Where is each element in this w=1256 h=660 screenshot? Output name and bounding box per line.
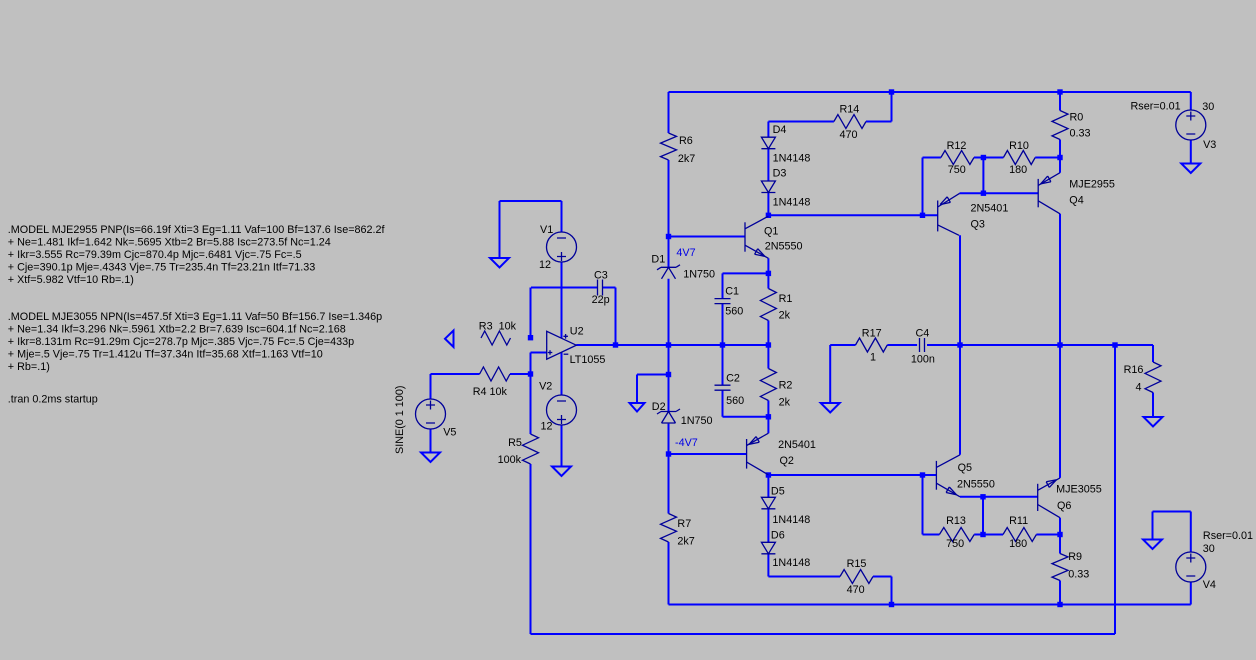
svg-text:R17: R17 [862, 328, 882, 340]
svg-text:+ Xtf=5.982 Vtf=10 Rb=.1): + Xtf=5.982 Vtf=10 Rb=.1) [8, 274, 134, 286]
svg-text:.tran 0.2ms startup: .tran 0.2ms startup [8, 394, 98, 406]
svg-text:Rser=0.01: Rser=0.01 [1203, 530, 1253, 542]
svg-text:V2: V2 [539, 381, 552, 393]
svg-text:1N4148: 1N4148 [772, 514, 810, 526]
svg-text:0.33: 0.33 [1070, 128, 1091, 140]
svg-text:R9: R9 [1068, 551, 1082, 563]
svg-text:R11: R11 [1009, 515, 1028, 527]
svg-text:180: 180 [1009, 538, 1027, 550]
svg-text:2k: 2k [779, 397, 791, 409]
svg-text:R3 10k: R3 10k [479, 321, 517, 333]
svg-text:4: 4 [1136, 382, 1142, 394]
svg-text:470: 470 [847, 584, 865, 596]
svg-text:C2: C2 [726, 373, 740, 385]
svg-text:2k: 2k [779, 310, 791, 322]
svg-text:C4: C4 [916, 328, 930, 340]
svg-text:100n: 100n [911, 354, 935, 366]
svg-text:R6: R6 [679, 135, 693, 147]
svg-text:R12: R12 [947, 140, 967, 152]
svg-text:-4V7: -4V7 [675, 437, 698, 449]
svg-text:180: 180 [1009, 164, 1027, 176]
svg-text:R0: R0 [1070, 112, 1084, 124]
svg-text:30: 30 [1203, 543, 1215, 555]
svg-text:C3: C3 [594, 270, 608, 282]
svg-text:560: 560 [725, 306, 743, 318]
svg-text:+ Rb=.1): + Rb=.1) [8, 361, 50, 373]
svg-text:V1: V1 [540, 224, 553, 236]
svg-text:1N4148: 1N4148 [773, 153, 811, 165]
svg-text:R10: R10 [1009, 140, 1029, 152]
svg-text:D6: D6 [771, 530, 785, 542]
svg-text:1N4148: 1N4148 [772, 557, 810, 569]
svg-text:2N5401: 2N5401 [778, 439, 816, 451]
svg-text:R16: R16 [1124, 364, 1144, 376]
svg-text:R1: R1 [779, 293, 793, 305]
svg-text:22p: 22p [592, 294, 610, 306]
svg-text:R14: R14 [840, 104, 860, 116]
svg-text:750: 750 [948, 164, 966, 176]
svg-text:4V7: 4V7 [676, 247, 695, 259]
svg-text:2k7: 2k7 [678, 153, 695, 165]
svg-text:D3: D3 [773, 168, 787, 180]
svg-text:+ Ikr=8.131m Rc=91.29m Cjc=278: + Ikr=8.131m Rc=91.29m Cjc=278.7p Mjc=.3… [8, 336, 354, 348]
svg-text:100k: 100k [498, 454, 522, 466]
svg-text:R4 10k: R4 10k [473, 386, 508, 398]
svg-text:Q5: Q5 [958, 462, 972, 474]
svg-text:2N5550: 2N5550 [957, 479, 995, 491]
svg-text:D1: D1 [651, 254, 665, 266]
svg-text:Q2: Q2 [780, 455, 794, 467]
svg-text:MJE2955: MJE2955 [1069, 179, 1115, 191]
svg-text:30: 30 [1202, 101, 1214, 113]
svg-text:D2: D2 [652, 401, 666, 413]
svg-text:.MODEL MJE3055 NPN(Is=457.5f X: .MODEL MJE3055 NPN(Is=457.5f Xti=3 Eg=1.… [8, 311, 382, 323]
svg-text:R5: R5 [508, 437, 522, 449]
svg-text:R2: R2 [779, 380, 793, 392]
svg-text:1: 1 [870, 352, 876, 364]
svg-text:V5: V5 [443, 427, 456, 439]
svg-text:2N5401: 2N5401 [971, 203, 1009, 215]
svg-text:V4: V4 [1203, 579, 1216, 591]
svg-text:1N750: 1N750 [681, 415, 713, 427]
svg-text:U2: U2 [570, 326, 584, 338]
svg-text:2k7: 2k7 [677, 536, 694, 548]
svg-text:0.33: 0.33 [1068, 569, 1089, 581]
svg-text:Q6: Q6 [1057, 500, 1071, 512]
svg-text:Rser=0.01: Rser=0.01 [1131, 101, 1181, 113]
svg-text:D4: D4 [773, 124, 787, 136]
svg-text:12: 12 [539, 259, 551, 271]
svg-text:R15: R15 [847, 558, 867, 570]
svg-text:Q3: Q3 [971, 219, 985, 231]
svg-text:R7: R7 [677, 518, 691, 530]
svg-text:560: 560 [726, 395, 744, 407]
svg-text:Q1: Q1 [764, 226, 778, 238]
svg-text:D5: D5 [771, 486, 785, 498]
svg-text:SINE(0 1 100): SINE(0 1 100) [394, 386, 406, 454]
svg-text:+ Ne=1.481 Ikf=1.642 Nk=.5695: + Ne=1.481 Ikf=1.642 Nk=.5695 Xtb=2 Br=5… [8, 237, 331, 249]
svg-text:+ Ne=1.34 Ikf=3.296 Nk=.5961 X: + Ne=1.34 Ikf=3.296 Nk=.5961 Xtb=2.2 Br=… [8, 324, 346, 336]
svg-text:MJE3055: MJE3055 [1056, 483, 1102, 495]
svg-text:2N5550: 2N5550 [765, 241, 803, 253]
svg-text:Q4: Q4 [1069, 195, 1083, 207]
svg-text:V3: V3 [1203, 139, 1216, 151]
svg-text:1N4148: 1N4148 [773, 197, 811, 209]
svg-text:C1: C1 [725, 286, 739, 298]
svg-text:750: 750 [946, 538, 964, 550]
svg-text:12: 12 [541, 421, 553, 433]
svg-text:R13: R13 [946, 515, 966, 527]
svg-text:1N750: 1N750 [683, 269, 715, 281]
svg-text:+ Ikr=3.555 Rc=79.39m Cjc=870.: + Ikr=3.555 Rc=79.39m Cjc=870.4p Mjc=.64… [8, 249, 302, 261]
svg-text:+ Cje=390.1p Mje=.4343 Vje=.75: + Cje=390.1p Mje=.4343 Vje=.75 Tr=235.4n… [8, 262, 315, 274]
svg-text:.MODEL MJE2955 PNP(Is=66.19f X: .MODEL MJE2955 PNP(Is=66.19f Xti=3 Eg=1.… [8, 224, 386, 236]
svg-text:470: 470 [840, 129, 858, 141]
svg-text:LT1055: LT1055 [570, 354, 606, 366]
svg-text:+ Mje=.5 Vje=.75 Tr=1.412u Tf=: + Mje=.5 Vje=.75 Tr=1.412u Tf=37.34n Itf… [8, 349, 323, 361]
